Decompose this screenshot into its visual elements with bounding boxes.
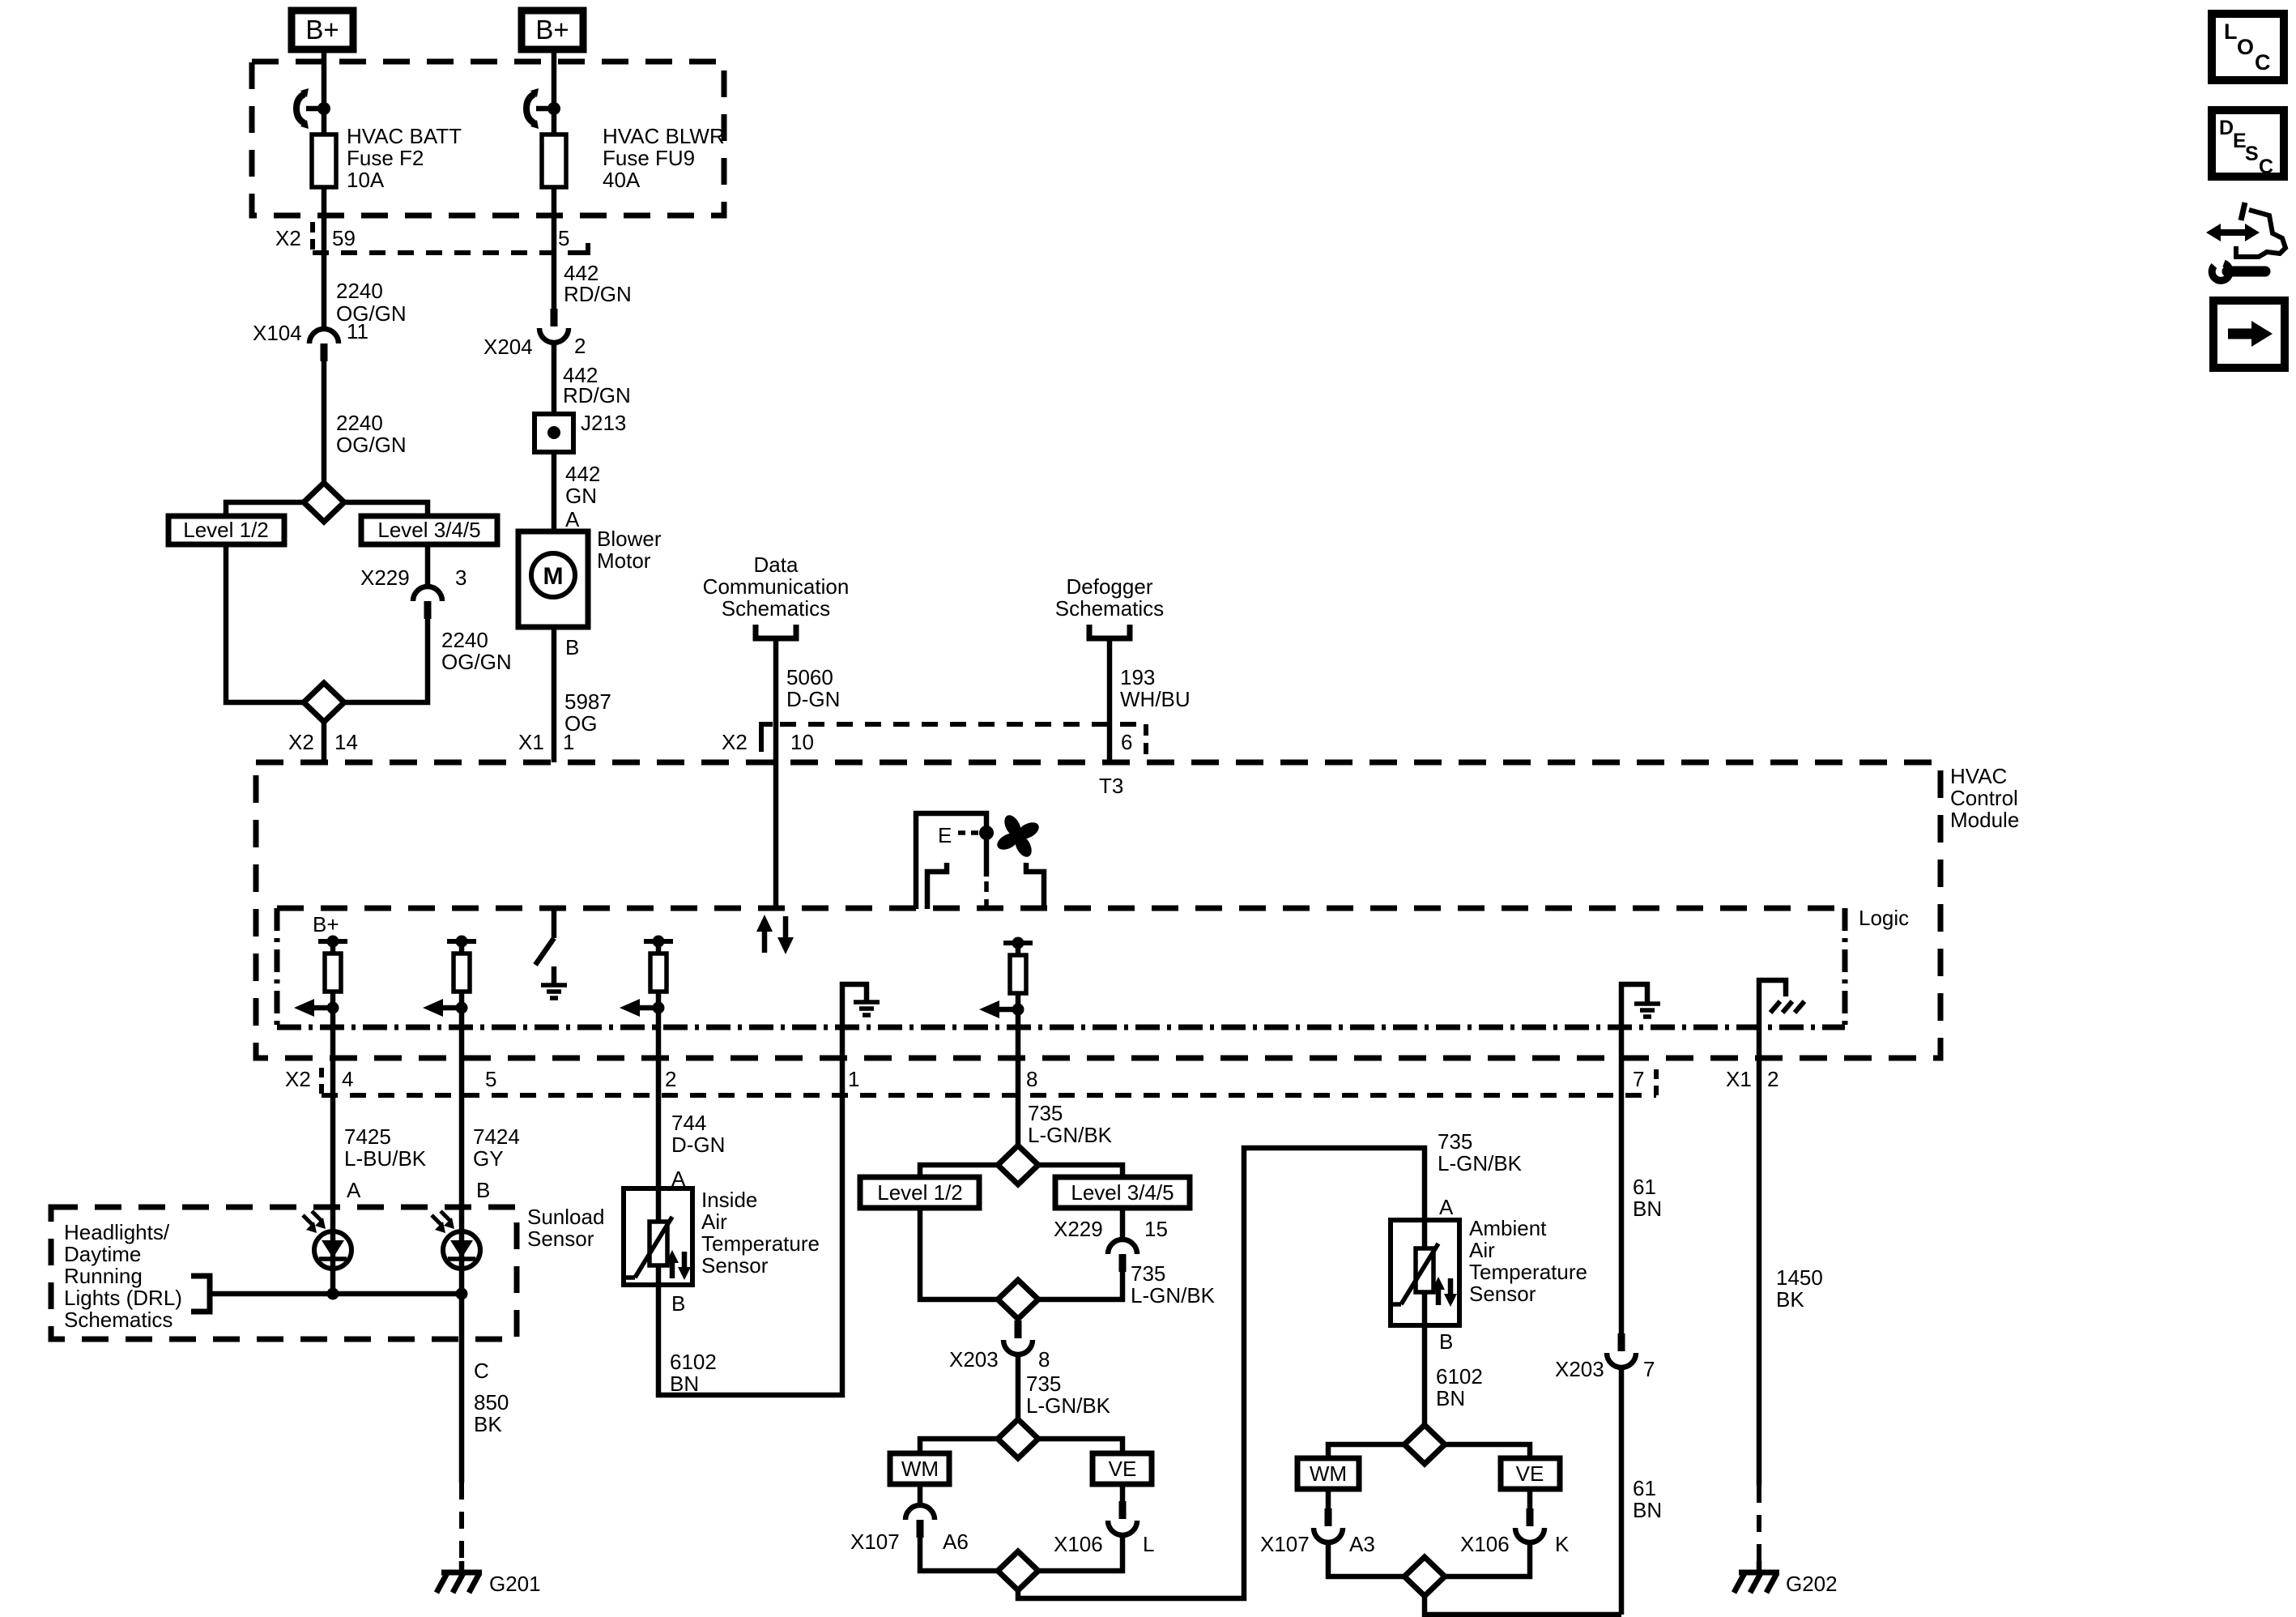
label: circuit 61 BN (lower) (1633, 1476, 1662, 1522)
svg-text:7: 7 (1643, 1357, 1655, 1381)
wire Level 3/4/5 down to connector X229 (425, 544, 431, 587)
wire pin X1-2 through module bottom (1757, 1027, 1762, 1486)
connector X107 pin A6 (850, 1505, 969, 1554)
svg-text:2240: 2240 (336, 279, 383, 303)
Level 1/2 box (mid) (860, 1177, 979, 1208)
svg-text:C: C (474, 1359, 489, 1383)
wire pin 2 to inside air temperature sensor (656, 1131, 662, 1188)
wire pin 2 through module bottom (656, 1027, 662, 1131)
connector X203 pin 8 (949, 1320, 1050, 1372)
label: Blower Motor (597, 527, 662, 573)
underhood fuse block (dashed box) (252, 62, 724, 215)
label: Headlights/Daytime Running Lights (DRL) Schematics (64, 1220, 182, 1332)
splice diamond B (level select merge) (998, 1280, 1038, 1319)
wire VE right to connector X106-K (1527, 1489, 1533, 1508)
svg-text:G201: G201 (489, 1572, 541, 1596)
svg-text:735: 735 (1028, 1101, 1063, 1125)
label: circuit 735 L-GN/BK (pin 8) (1028, 1101, 1113, 1147)
wire pin 4 through module bottom (330, 1027, 336, 1131)
splice diamond A (level select top) (998, 1146, 1038, 1184)
fuse clip hook at F2 (296, 88, 324, 129)
svg-text:L: L (1143, 1532, 1154, 1556)
svg-text:Air: Air (1469, 1238, 1495, 1262)
label: circuit 5060 D-GN (786, 665, 840, 711)
junction dot at D1 (327, 1288, 339, 1300)
svg-text:Level 1/2: Level 1/2 (877, 1180, 963, 1205)
svg-text:WM: WM (901, 1457, 939, 1481)
svg-text:X203: X203 (1555, 1357, 1604, 1381)
internal hook to signal ground (sensor return) (1621, 984, 1660, 1027)
wire WM right to connector X107-A3 (1326, 1489, 1331, 1508)
svg-text:B: B (1439, 1329, 1453, 1354)
wire diamond E to WM box (right) (1328, 1444, 1404, 1458)
svg-text:735: 735 (1131, 1261, 1165, 1286)
label: circuit 2240 OG/GN (mid) (336, 411, 407, 457)
junction node at fuse FU9 input (547, 102, 560, 115)
label: HVAC Control Module (1950, 764, 2019, 832)
svg-text:X2: X2 (722, 730, 748, 754)
label: circuit 735 L-GN/BK (below X203) (1026, 1372, 1111, 1418)
svg-text:RD/GN: RD/GN (563, 383, 631, 407)
svg-text:14: 14 (334, 730, 358, 754)
svg-text:L-GN/BK: L-GN/BK (1131, 1283, 1216, 1308)
svg-text:S: S (2245, 143, 2259, 165)
label: Inside Air Temperature Sensor (701, 1188, 820, 1278)
svg-text:OG/GN: OG/GN (441, 650, 512, 674)
wire Level 1/2 down to lower splice (226, 544, 304, 702)
wire diamond D to ambient feed riser (1018, 1148, 1425, 1598)
ground G201 (437, 1561, 541, 1596)
splice J213 (535, 411, 626, 452)
wire data communication to module pin X2-10 (773, 638, 779, 909)
label: circuit 735 L-GN/BK (ambient feed) (1438, 1129, 1523, 1175)
svg-text:BN: BN (670, 1372, 699, 1396)
connector X2 row at fuse block (pins 59, 5) (275, 222, 588, 253)
svg-text:Sensor: Sensor (527, 1227, 594, 1251)
svg-text:B: B (671, 1291, 685, 1316)
svg-text:Headlights/: Headlights/ (64, 1220, 170, 1244)
blower control switch (internal) (535, 909, 554, 965)
connector X106 pin L (1054, 1501, 1154, 1556)
svg-text:Schematics: Schematics (1055, 596, 1164, 621)
legend icon: forward arrow box (2213, 301, 2285, 368)
svg-text:VE: VE (1109, 1457, 1137, 1481)
connector X204 pin 2 (483, 309, 586, 359)
pull-up resistor R2 (sunload input 2) (447, 936, 476, 1028)
svg-text:1: 1 (563, 730, 574, 754)
wire diamond A to Level 1/2 box (920, 1165, 998, 1177)
thermistor symbol (inside air) (624, 1217, 672, 1278)
wire defogger to module pin 6 (1107, 638, 1113, 762)
svg-text:L-GN/BK: L-GN/BK (1026, 1393, 1111, 1418)
sense arrow at R1 (294, 999, 339, 1017)
svg-text:D: D (2219, 117, 2234, 139)
wire fuse FU9 to connector X204 (552, 187, 557, 311)
ambient air temperature sensor box (1391, 1220, 1459, 1325)
bidirectional data arrows (serial data) (756, 915, 794, 954)
WM box (left network) (890, 1453, 949, 1484)
svg-text:Data: Data (754, 553, 799, 577)
connector X107 pin A3 (1260, 1508, 1375, 1556)
wire pin 7 through module bottom (1619, 1027, 1625, 1333)
wire fuse F2 to connector X2-59 (322, 187, 327, 256)
svg-text:15: 15 (1144, 1217, 1168, 1241)
splice diamond F (WM/VE merge right) (1404, 1557, 1445, 1596)
wire X2-59 to connector X104 (322, 253, 327, 329)
wire J213 to blower motor pin A (552, 452, 557, 531)
label: circuit 442 RD/GN (below X204) (563, 363, 631, 407)
wire pin 5 to sunload cell B (459, 1131, 465, 1232)
inside air temperature sensor box (624, 1188, 692, 1285)
label: circuit 1450 BK (1776, 1265, 1823, 1312)
wire diamond A to Level 3/4/5 box (1038, 1165, 1122, 1177)
wire Level 1/2 to splice diamond B (920, 1208, 998, 1299)
svg-text:X2: X2 (275, 226, 301, 250)
svg-text:BN: BN (1633, 1197, 1662, 1221)
wire X203-8 to splice diamond C (1016, 1355, 1021, 1419)
svg-text:C: C (2259, 156, 2273, 178)
svg-text:5987: 5987 (564, 689, 611, 714)
wire X203-7 down to diamond F return (1619, 1367, 1625, 1615)
internal hook to chassis ground (1759, 980, 1804, 1027)
svg-text:X106: X106 (1460, 1532, 1510, 1556)
label: Data Communication Schematics (703, 553, 850, 621)
Logic box (dashed) (277, 908, 1845, 1027)
wire diamond E to VE box (right) (1445, 1444, 1530, 1458)
HVAC Control Module box (dashed) (256, 762, 1940, 1058)
wire D2 cathode through junction (459, 1269, 465, 1339)
splice diamond D (WM/VE merge left) (998, 1551, 1038, 1590)
internal hook to signal ground (inside sensor return, pin 1) (842, 984, 880, 1027)
svg-text:2: 2 (574, 334, 586, 358)
photodiode D1 (sunload cell A) (303, 1211, 351, 1269)
legend icon: vehicle communication (car with arrow) (2206, 203, 2285, 257)
svg-text:2240: 2240 (336, 411, 383, 435)
svg-text:Lights (DRL): Lights (DRL) (64, 1286, 182, 1310)
wire WM to connector X107-A6 (918, 1484, 923, 1505)
fuse FU9 body (542, 134, 566, 187)
wire ambient B to splice diamond E (1422, 1325, 1428, 1425)
sense arrow at R3 (620, 999, 665, 1017)
svg-text:HVAC: HVAC (1950, 764, 2007, 788)
svg-text:X106: X106 (1054, 1532, 1103, 1556)
svg-text:7: 7 (1633, 1067, 1644, 1091)
sense arrow at R4 (979, 1000, 1024, 1018)
thermistor symbol (ambient) (1391, 1244, 1438, 1304)
label: pin B, circuit 5987 OG (564, 635, 611, 736)
svg-text:Sunload: Sunload (527, 1205, 604, 1229)
fuse clip hook at FU9 (526, 88, 554, 129)
svg-text:8: 8 (1038, 1347, 1050, 1372)
svg-text:D-GN: D-GN (786, 687, 840, 711)
label: Defogger Schematics (1055, 574, 1164, 621)
temperature arrows (ambient sensor) (1432, 1277, 1457, 1307)
svg-text:10A: 10A (347, 168, 385, 192)
svg-text:Communication: Communication (703, 574, 850, 599)
ground G202 (1734, 1561, 1838, 1596)
legend icon: DESC box (2212, 110, 2284, 178)
wire sunload C to ground (dashed part) (459, 1483, 464, 1561)
svg-text:WM: WM (1310, 1461, 1347, 1486)
svg-text:A6: A6 (943, 1530, 969, 1554)
svg-text:3: 3 (455, 565, 466, 590)
wire X106-L to splice diamond D (1038, 1535, 1122, 1571)
connector X106 pin K (1460, 1508, 1570, 1556)
off-page bracket (defogger) (1089, 625, 1130, 638)
svg-text:BN: BN (1633, 1498, 1662, 1522)
svg-text:GY: GY (473, 1146, 504, 1171)
svg-text:Sensor: Sensor (701, 1253, 769, 1278)
wire diamond F to 61 BN return (1425, 1596, 1621, 1615)
junction node at fuse F2 input (317, 102, 330, 115)
svg-text:X1: X1 (1726, 1067, 1752, 1091)
svg-text:Logic: Logic (1859, 906, 1909, 930)
junction dot at D2 (456, 1288, 468, 1300)
svg-text:L-BU/BK: L-BU/BK (344, 1146, 427, 1171)
svg-text:D-GN: D-GN (671, 1133, 725, 1157)
svg-text:Control: Control (1950, 786, 2018, 810)
svg-text:GN: GN (565, 484, 597, 508)
wire pin 4 to sunload cell A (330, 1131, 336, 1232)
legend icon: LOC box (2212, 14, 2284, 80)
connector X203 pin 7 (1555, 1333, 1655, 1381)
svg-text:OG/GN: OG/GN (336, 433, 407, 457)
svg-text:T3: T3 (1099, 774, 1123, 798)
label: circuit 6102 BN (ambient) (1436, 1364, 1483, 1410)
wire sunload C to ground (solid part) (459, 1339, 465, 1483)
blower drive logic block (E) (916, 813, 994, 909)
connector X229 pin 3 (360, 565, 466, 619)
svg-text:K: K (1555, 1532, 1570, 1556)
svg-text:BK: BK (1776, 1287, 1804, 1312)
connector X104 pin 11 (253, 319, 368, 361)
svg-text:Ambient: Ambient (1469, 1216, 1547, 1240)
svg-text:HVAC BLWR: HVAC BLWR (603, 124, 725, 148)
svg-text:11: 11 (347, 319, 368, 343)
splice diamond (fan speed split, upper) (304, 483, 344, 522)
svg-text:A: A (347, 1178, 361, 1202)
label: Sunload Sensor (527, 1205, 604, 1251)
svg-text:6102: 6102 (1436, 1364, 1483, 1389)
svg-text:40A: 40A (603, 168, 641, 192)
wire diamond to Level 3/4/5 box (344, 502, 428, 516)
svg-text:Air: Air (701, 1210, 727, 1234)
label: circuit 193 WH/BU (1120, 665, 1191, 711)
label: circuit 850 BK (474, 1390, 509, 1436)
label: circuit 744 D-GN (671, 1111, 725, 1157)
off-page bracket (data communication) (756, 625, 796, 638)
label: circuit 735 L-GN/BK (after X229) (1131, 1261, 1216, 1308)
wire X104 to upper splice diamond (322, 361, 327, 484)
svg-text:Schematics: Schematics (722, 596, 830, 621)
svg-text:8: 8 (1026, 1067, 1037, 1091)
wire D1 cathode to junction (330, 1269, 336, 1294)
Level 1/2 box (upper) (168, 516, 284, 544)
wire pin 5 through module bottom (459, 1027, 465, 1131)
wire from B+ right to fuse FU9 (552, 53, 557, 134)
svg-text:Fuse F2: Fuse F2 (347, 146, 424, 170)
svg-text:2: 2 (1767, 1067, 1778, 1091)
label: circuit 442 GN, pin A (565, 462, 600, 531)
svg-text:Running: Running (64, 1264, 143, 1288)
svg-text:5060: 5060 (786, 665, 833, 689)
wire Level 3/4/5 to connector X229-15 (1120, 1208, 1126, 1239)
pull-up resistor R3 (inside air temp input) (644, 936, 673, 1028)
connector bracket X2 pins 10..6 at module top (722, 724, 1146, 760)
svg-text:193: 193 (1120, 665, 1155, 689)
svg-text:6: 6 (1121, 730, 1132, 754)
svg-text:B: B (565, 635, 579, 659)
svg-text:J213: J213 (581, 411, 626, 435)
wire VE to connector X106-L (1120, 1484, 1126, 1501)
svg-text:X2: X2 (285, 1067, 311, 1091)
svg-text:X229: X229 (1054, 1217, 1103, 1241)
wire inside sensor B to module pin 1 (658, 1027, 842, 1395)
svg-text:61: 61 (1633, 1175, 1656, 1199)
connector X229 pin 15 (1054, 1217, 1168, 1272)
wire X229-15 to splice diamond B (1038, 1272, 1122, 1299)
svg-text:Level 1/2: Level 1/2 (183, 518, 269, 542)
label: circuit 442 RD/GN (above X204) (564, 261, 632, 306)
fuse F2 body (312, 134, 336, 187)
wire X204 to splice J213 (552, 343, 557, 414)
pin label X1-1 at module top (518, 730, 574, 754)
label: circuit 61 BN (upper) (1633, 1175, 1662, 1221)
svg-text:A: A (565, 507, 580, 531)
wire X107-A6 to splice diamond D (920, 1538, 998, 1571)
wire X1-2 to ground (dashed part) (1757, 1486, 1761, 1561)
power symbol B+ (right feed) (522, 11, 583, 49)
svg-text:Sensor: Sensor (1469, 1282, 1536, 1306)
svg-text:61: 61 (1633, 1476, 1656, 1500)
svg-text:Level 3/4/5: Level 3/4/5 (377, 518, 480, 542)
svg-text:RD/GN: RD/GN (564, 282, 632, 306)
svg-text:735: 735 (1438, 1129, 1472, 1154)
wire diamond to Level 1/2 box (226, 502, 304, 516)
pin labels A and B at sunload sensor (347, 1178, 490, 1202)
svg-text:X2: X2 (288, 730, 314, 754)
fan leg (1026, 863, 1044, 909)
svg-text:735: 735 (1026, 1372, 1061, 1396)
svg-text:Fuse FU9: Fuse FU9 (603, 146, 695, 170)
svg-text:WH/BU: WH/BU (1120, 687, 1191, 711)
svg-text:X1: X1 (518, 730, 544, 754)
svg-text:A: A (1439, 1195, 1454, 1219)
wire X106-K to splice diamond F (1445, 1542, 1530, 1576)
svg-text:B+: B+ (535, 15, 569, 45)
svg-text:4: 4 (342, 1067, 353, 1091)
DRL reference bracket (191, 1276, 210, 1312)
svg-text:Temperature: Temperature (1469, 1260, 1587, 1284)
svg-text:M: M (543, 563, 564, 590)
pull-up resistor R4 (ambient temp input) (1003, 937, 1033, 1028)
svg-text:2: 2 (665, 1067, 676, 1091)
svg-text:7424: 7424 (473, 1124, 520, 1149)
Level 3/4/5 box (upper) (361, 516, 497, 544)
legend icon: wrench (2212, 263, 2265, 280)
svg-text:Schematics: Schematics (64, 1308, 173, 1332)
WM box (right network) (1297, 1458, 1359, 1489)
svg-text:6102: 6102 (670, 1350, 717, 1374)
svg-text:X204: X204 (483, 335, 533, 359)
svg-text:B+: B+ (305, 15, 339, 45)
svg-text:10: 10 (790, 730, 814, 754)
svg-text:442: 442 (565, 462, 600, 486)
wire X107-A3 to splice diamond F (1328, 1542, 1404, 1576)
svg-text:C: C (2255, 50, 2271, 75)
svg-text:VE: VE (1516, 1461, 1544, 1486)
sunload sensor / DRL dashed box (51, 1207, 517, 1339)
label: circuit 2240 OG/GN (lower) (441, 628, 512, 674)
svg-text:B: B (476, 1178, 490, 1202)
label: HVAC BATT Fuse F2 10A (347, 124, 462, 192)
wire pin 8 through module bottom (1016, 1027, 1021, 1146)
sense arrow at R2 (423, 999, 468, 1017)
svg-text:G202: G202 (1786, 1572, 1838, 1596)
svg-text:1450: 1450 (1776, 1265, 1823, 1290)
splice diamond C (WM/VE split left) (998, 1419, 1038, 1458)
svg-text:2240: 2240 (441, 628, 488, 652)
svg-text:850: 850 (474, 1390, 509, 1414)
pin label X2-14 at module top (288, 730, 358, 754)
temperature arrows (inside sensor) (666, 1250, 691, 1280)
label: circuit 7424 GY (473, 1124, 520, 1171)
connector X2 row at module bottom (285, 1067, 1778, 1095)
label: circuit 7425 L-BU/BK (344, 1124, 427, 1171)
svg-text:7425: 7425 (344, 1124, 391, 1149)
label: circuit 6102 BN (inside sensor) (670, 1350, 717, 1396)
power symbol B+ (left feed) (292, 11, 353, 49)
svg-text:Inside: Inside (701, 1188, 757, 1212)
svg-text:5: 5 (485, 1067, 496, 1091)
svg-text:59: 59 (332, 226, 356, 250)
wire through inside sensor (656, 1188, 662, 1285)
svg-text:Daytime: Daytime (64, 1242, 141, 1266)
label: Ambient Air Temperature Sensor (1469, 1216, 1587, 1306)
wire from B+ left to fuse F2 (322, 53, 327, 134)
svg-text:Blower: Blower (597, 527, 662, 551)
svg-text:X203: X203 (949, 1347, 999, 1372)
svg-text:Level 3/4/5: Level 3/4/5 (1071, 1180, 1174, 1205)
svg-text:A3: A3 (1349, 1532, 1375, 1556)
svg-text:X107: X107 (850, 1530, 900, 1554)
svg-text:Temperature: Temperature (701, 1231, 820, 1256)
svg-text:X229: X229 (360, 565, 410, 590)
svg-text:BN: BN (1436, 1386, 1465, 1410)
svg-text:BK: BK (474, 1412, 502, 1436)
svg-text:744: 744 (671, 1111, 706, 1135)
label: HVAC BLWR Fuse FU9 40A (603, 124, 725, 192)
svg-text:O: O (2237, 35, 2254, 59)
svg-text:Module: Module (1950, 808, 2019, 832)
svg-text:5: 5 (558, 226, 569, 250)
VE box (left network) (1093, 1453, 1152, 1484)
splice diamond E (WM/VE split right) (1404, 1425, 1445, 1464)
svg-text:Motor: Motor (597, 548, 651, 573)
wire splice to HVAC module pin X2-14 (322, 722, 327, 762)
svg-text:Defogger: Defogger (1067, 574, 1153, 599)
svg-text:L: L (2224, 19, 2238, 44)
svg-text:X104: X104 (253, 321, 302, 345)
wire diamond C to WM box (920, 1439, 998, 1453)
svg-text:E: E (938, 823, 952, 847)
wire through ambient sensor (1422, 1220, 1428, 1325)
svg-text:L-GN/BK: L-GN/BK (1028, 1123, 1113, 1147)
svg-text:L-GN/BK: L-GN/BK (1438, 1151, 1523, 1175)
VE box (right network) (1501, 1458, 1560, 1489)
wire diamond C to VE box (1038, 1439, 1122, 1453)
wire X229-3 to lower splice (344, 619, 428, 702)
